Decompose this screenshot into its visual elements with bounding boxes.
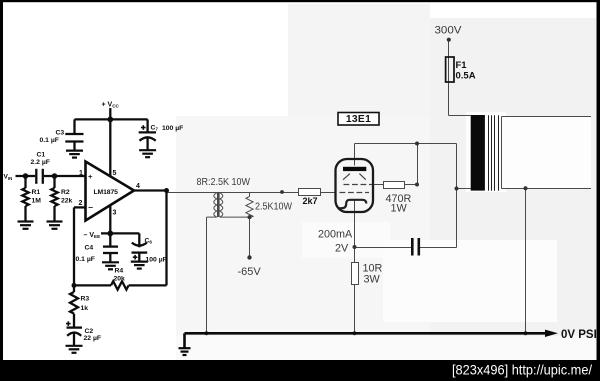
svg-text:300V: 300V [435,25,463,37]
svg-text:[823x496] http://upic.me/: [823x496] http://upic.me/ [452,362,592,378]
svg-text:22k: 22k [61,198,73,205]
svg-text:13E1: 13E1 [346,114,371,125]
svg-text:1W: 1W [391,203,408,215]
svg-text:C1: C1 [37,152,46,159]
svg-text:R1: R1 [32,189,41,196]
svg-text:1M: 1M [32,198,42,205]
svg-text:-65V: -65V [238,266,262,278]
svg-text:C3: C3 [56,130,65,137]
svg-text:1k: 1k [81,305,89,312]
svg-text:3: 3 [113,210,117,217]
svg-text:R4: R4 [115,268,124,275]
svg-text:0.5A: 0.5A [456,71,476,82]
svg-text:–: – [88,202,93,212]
svg-text:F1: F1 [456,60,468,71]
svg-text:3W: 3W [364,274,381,286]
svg-text:LM1875: LM1875 [94,189,119,196]
svg-text:2.5K10W: 2.5K10W [255,202,292,213]
svg-text:2: 2 [79,200,83,207]
svg-text:20k: 20k [114,276,126,283]
svg-text:0.1 µF: 0.1 µF [40,137,59,144]
svg-text:0V PSI: 0V PSI [561,329,597,341]
svg-text:C4: C4 [85,244,94,251]
svg-text:100 µF: 100 µF [162,125,183,132]
svg-text:8R:2.5K 10W: 8R:2.5K 10W [197,177,251,188]
svg-text:4: 4 [136,183,140,190]
svg-text:22 µF: 22 µF [84,335,102,342]
svg-text:5: 5 [113,170,117,177]
svg-text:R3: R3 [81,295,90,302]
svg-text:100 µF: 100 µF [146,257,167,264]
svg-text:2.2 µF: 2.2 µF [31,159,50,166]
svg-text:200mA: 200mA [318,229,353,241]
svg-text:0.1 µF: 0.1 µF [76,256,95,263]
svg-text:R2: R2 [61,189,70,196]
svg-text:+: + [88,172,93,181]
svg-text:2k7: 2k7 [303,196,318,206]
svg-text:2V: 2V [335,243,349,255]
svg-text:1: 1 [79,170,83,177]
